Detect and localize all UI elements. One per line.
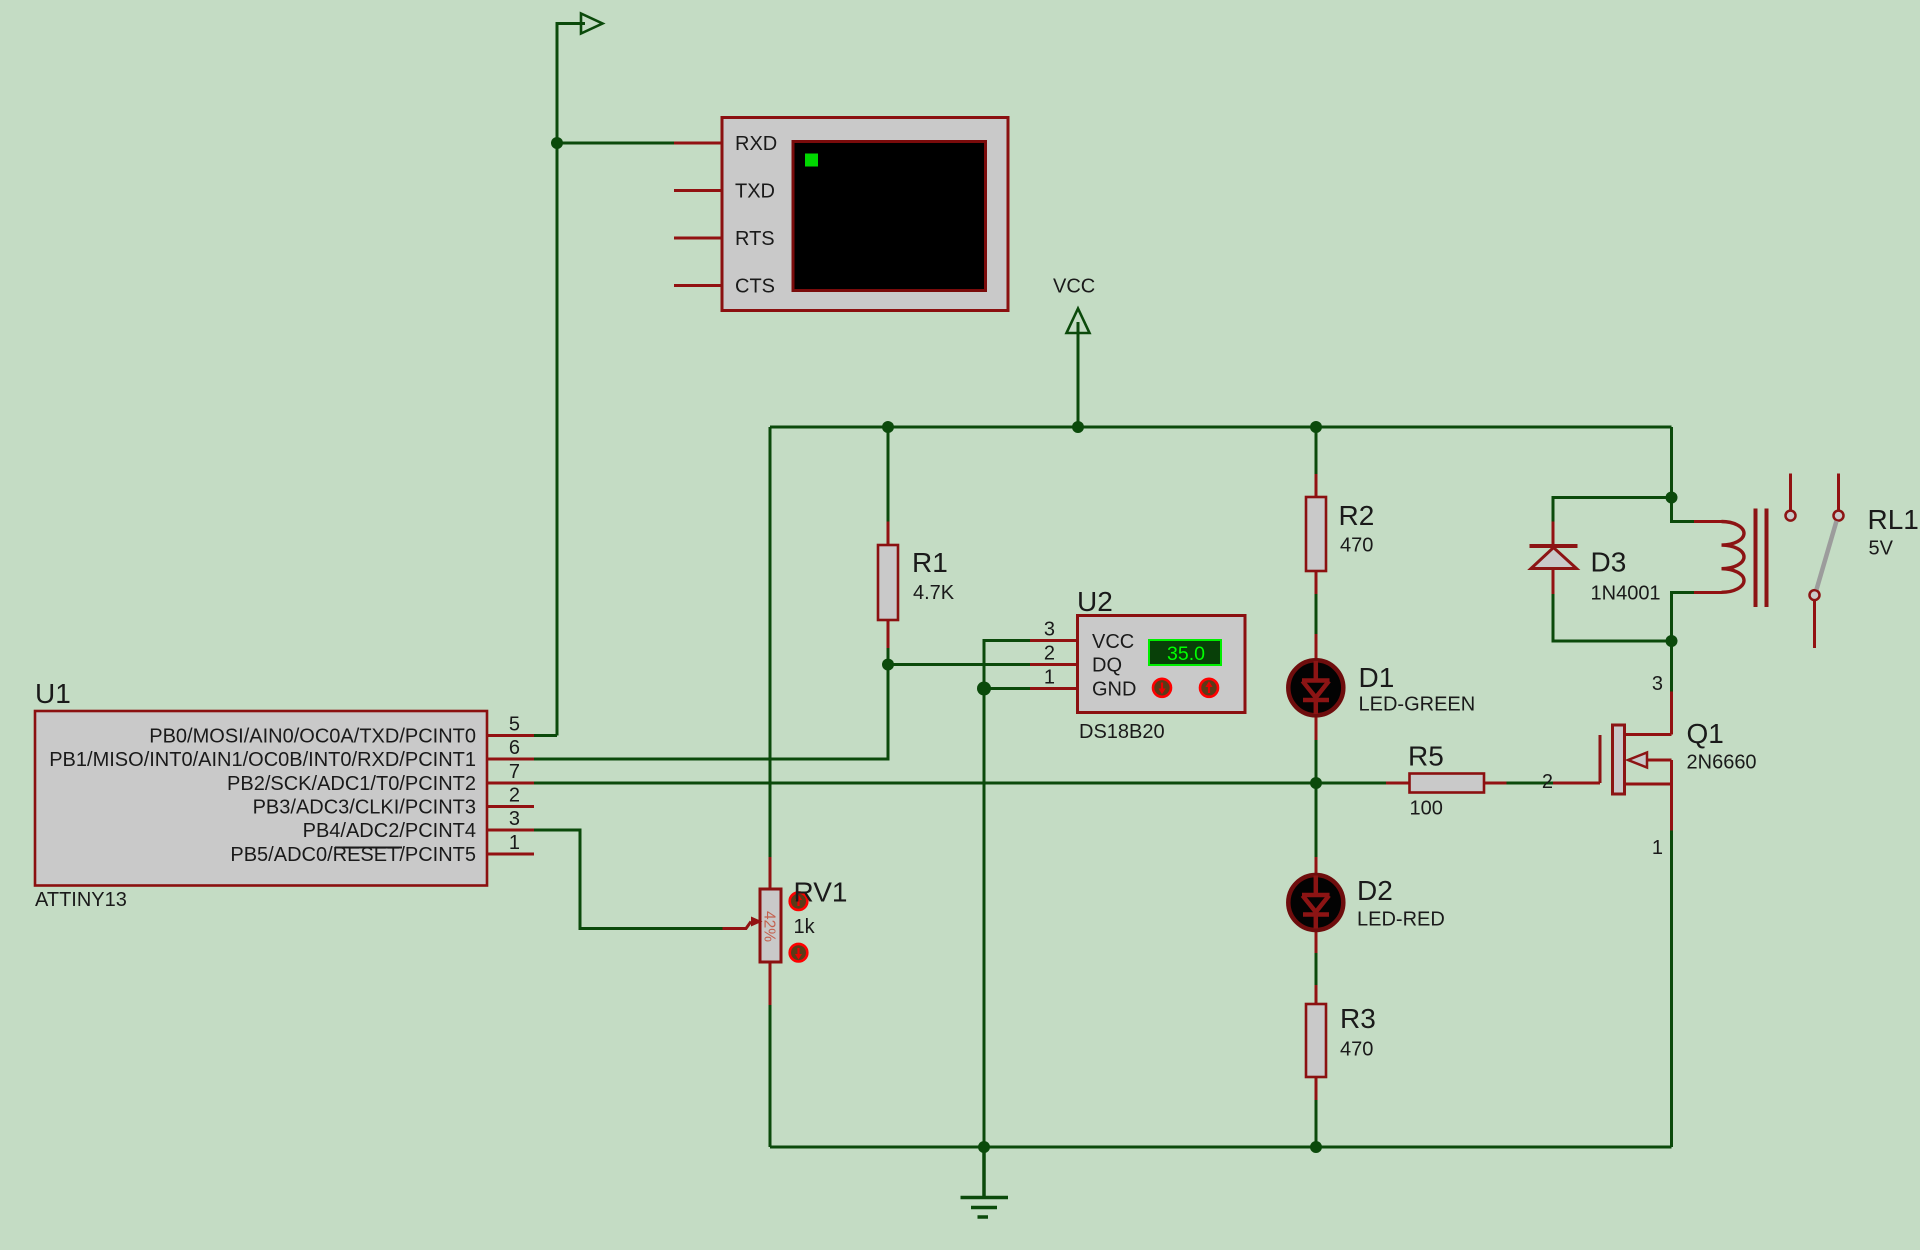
svg-text:R3: R3 bbox=[1340, 1003, 1376, 1034]
resistor R2 stubs bbox=[1315, 474, 1318, 497]
resistor R5 stubs bbox=[1386, 782, 1410, 785]
wire R1 bottom to DQ node bbox=[887, 648, 890, 665]
svg-text:3: 3 bbox=[509, 808, 520, 830]
svg-text:PB4/ADC2/PCINT4: PB4/ADC2/PCINT4 bbox=[303, 820, 476, 842]
svg-text:U1: U1 bbox=[35, 678, 71, 709]
svg-text:U2: U2 bbox=[1077, 586, 1113, 617]
U1 RESET overline bbox=[335, 847, 402, 849]
junction DQ node bbox=[882, 659, 894, 671]
wire R1 top to VCC rail bbox=[887, 427, 890, 522]
svg-text:Q1: Q1 bbox=[1687, 718, 1724, 749]
svg-text:3: 3 bbox=[1652, 673, 1663, 695]
svg-text:LED-RED: LED-RED bbox=[1357, 909, 1445, 931]
svg-text:TXD: TXD bbox=[735, 181, 775, 203]
wire relay node to coil top bbox=[1672, 498, 1695, 522]
wire D2 bottom to R3 bbox=[1315, 953, 1318, 985]
relay RL1 contact circles bbox=[1786, 511, 1796, 521]
svg-text:D2: D2 bbox=[1357, 875, 1393, 906]
U1 pin stubs 5 6 7 2 3 1 bbox=[487, 736, 534, 855]
junction RXD node bbox=[551, 137, 563, 149]
svg-text:2N6660: 2N6660 bbox=[1687, 752, 1757, 774]
junction R3-ground rail bbox=[1310, 1141, 1322, 1153]
svg-text:PB0/MOSI/AIN0/OC0A/TXD/PCINT0: PB0/MOSI/AIN0/OC0A/TXD/PCINT0 bbox=[149, 726, 476, 748]
relay RL1 coil bbox=[1722, 522, 1745, 593]
pin stub RXD bbox=[674, 142, 722, 145]
transistor Q1 source vertical bbox=[1670, 760, 1673, 831]
U2 button down bbox=[1153, 679, 1171, 697]
transistor Q1 gate bar bbox=[1599, 735, 1602, 783]
transistor Q1 channel bar body bbox=[1613, 725, 1625, 794]
resistor R3 stubs bbox=[1315, 985, 1318, 1004]
svg-text:1: 1 bbox=[1044, 667, 1055, 689]
wire U1 pin5 to vertical bbox=[534, 734, 557, 737]
wire U1 pin6 to DQ node bbox=[534, 665, 888, 760]
U1 pin numbers bbox=[509, 714, 520, 855]
wire U1 pin7 PB2 to LED node bbox=[534, 782, 1316, 785]
svg-text:PB1/MISO/INT0/AIN1/OC0B/INT0/R: PB1/MISO/INT0/AIN1/OC0B/INT0/RXD/PCINT1 bbox=[49, 749, 476, 771]
svg-text:2: 2 bbox=[509, 785, 520, 807]
pin stub RTS bbox=[674, 237, 722, 240]
wire RXD branch bbox=[557, 142, 674, 145]
relay RL1 contact stubs bbox=[1789, 474, 1792, 511]
U2 button up bbox=[1200, 679, 1218, 697]
transistor Q1 substrate stub bbox=[1647, 759, 1672, 762]
transistor Q1 substrate arrow bbox=[1628, 753, 1647, 768]
junction LED-R5 node bbox=[1310, 777, 1322, 789]
virtual terminal screen bbox=[793, 142, 986, 291]
svg-text:5: 5 bbox=[509, 714, 520, 736]
svg-text:R5: R5 bbox=[1408, 741, 1444, 772]
svg-text:D1: D1 bbox=[1359, 662, 1395, 693]
svg-text:R2: R2 bbox=[1339, 500, 1375, 531]
wire R2 top to rail bbox=[1315, 427, 1318, 474]
svg-text:4.7K: 4.7K bbox=[913, 582, 955, 604]
LED D1 body bbox=[1288, 660, 1343, 715]
diode D3 stubs bbox=[1552, 522, 1555, 547]
relay RL1 blade bbox=[1817, 521, 1837, 590]
svg-text:GND: GND bbox=[1092, 679, 1136, 701]
wire U2 VCC pin loop down bbox=[984, 641, 1030, 1148]
svg-text:VCC: VCC bbox=[1053, 276, 1095, 298]
LED D2 body bbox=[1288, 875, 1343, 930]
svg-text:ATTINY13: ATTINY13 bbox=[35, 889, 127, 911]
wire vertical net PB0 to terminal arrow bbox=[557, 24, 585, 736]
svg-text:PB3/ADC3/CLKI/PCINT3: PB3/ADC3/CLKI/PCINT3 bbox=[253, 797, 476, 819]
junction R1-VCC rail bbox=[882, 421, 894, 433]
svg-text:5V: 5V bbox=[1869, 538, 1894, 560]
pin stub TXD bbox=[674, 189, 722, 192]
wire RV1 bottom to ground rail bbox=[769, 1005, 772, 1147]
transistor Q1 source stub bbox=[1626, 783, 1672, 786]
junction VCC stem-rail bbox=[1072, 421, 1084, 433]
junction U2 GND node bbox=[977, 682, 991, 696]
U1 ATTINY13 body bbox=[35, 711, 487, 886]
svg-text:1k: 1k bbox=[794, 916, 816, 938]
virtual terminal cursor bbox=[805, 154, 818, 167]
wire LED node to R5 bbox=[1316, 782, 1386, 785]
svg-text:LED-GREEN: LED-GREEN bbox=[1359, 694, 1476, 716]
svg-text:RXD: RXD bbox=[735, 133, 777, 155]
U1 port labels bbox=[49, 726, 476, 867]
virtual terminal body bbox=[722, 118, 1008, 311]
wire VCC rail to RV1 top bbox=[769, 427, 772, 857]
svg-text:RV1: RV1 bbox=[794, 877, 848, 908]
diode D3 triangle bbox=[1531, 548, 1577, 569]
terminal arrow (off-page output symbol) bbox=[581, 14, 603, 34]
wire coil bottom to relay bottom node bbox=[1672, 593, 1695, 642]
transistor Q1 drain stub horizontal bbox=[1626, 733, 1672, 736]
svg-text:D3: D3 bbox=[1591, 547, 1627, 578]
potentiometer RV1 stubs bbox=[769, 857, 772, 889]
LED D2 stubs bbox=[1315, 857, 1318, 875]
pin stub CTS bbox=[674, 284, 722, 287]
svg-text:DQ: DQ bbox=[1092, 655, 1122, 677]
LED D1 diode symbol bbox=[1302, 661, 1330, 714]
ground symbol bbox=[961, 1147, 1009, 1217]
U2 pin stubs VCC DQ GND bbox=[1030, 641, 1078, 689]
transistor Q1 gate lead stub bbox=[1553, 782, 1600, 785]
resistor R1 stubs bbox=[887, 522, 890, 546]
svg-text:6: 6 bbox=[509, 737, 520, 759]
wire R3 bottom to ground rail bbox=[1315, 1100, 1318, 1147]
svg-text:R1: R1 bbox=[912, 547, 948, 578]
junction relay bottom node bbox=[1666, 635, 1678, 647]
resistor R5 body bbox=[1410, 774, 1485, 793]
svg-text:2: 2 bbox=[1044, 643, 1055, 665]
svg-text:1: 1 bbox=[1652, 837, 1663, 859]
wire Q1 source to ground rail bbox=[1670, 831, 1673, 1148]
svg-text:DS18B20: DS18B20 bbox=[1079, 721, 1165, 743]
wire relay node to D3 top bbox=[1553, 498, 1672, 522]
svg-text:2: 2 bbox=[1542, 771, 1553, 793]
svg-text:1: 1 bbox=[509, 832, 520, 854]
resistor R3 body bbox=[1306, 1004, 1326, 1077]
U2 pin numbers 3 2 1 bbox=[1044, 619, 1055, 689]
transistor Q1 drain stub vertical bbox=[1670, 692, 1673, 735]
svg-text:RL1: RL1 bbox=[1868, 504, 1919, 535]
diode D3 cathode bar bbox=[1530, 544, 1578, 548]
svg-text:RTS: RTS bbox=[735, 228, 775, 250]
power symbol VCC arrow bbox=[1067, 309, 1090, 334]
wire DQ node to U2 DQ pin bbox=[888, 663, 1030, 666]
wire D3 bottom to relay bottom node bbox=[1553, 594, 1672, 641]
wire U2 GND pin branch bbox=[984, 687, 1030, 690]
RV1 button down bbox=[790, 944, 808, 962]
resistor R2 body bbox=[1306, 497, 1326, 571]
svg-text:PB2/SCK/ADC1/T0/PCINT2: PB2/SCK/ADC1/T0/PCINT2 bbox=[227, 773, 476, 795]
svg-text:3: 3 bbox=[1044, 619, 1055, 641]
wire R2 bottom to D1 bbox=[1315, 594, 1318, 634]
wire ground rail bottom bbox=[770, 1146, 1672, 1149]
svg-text:VCC: VCC bbox=[1092, 631, 1134, 653]
svg-text:470: 470 bbox=[1340, 535, 1373, 557]
transistor Q1 pin numbers bbox=[1542, 673, 1663, 859]
wire relay bottom node to Q1 drain bbox=[1670, 641, 1673, 692]
junction relay top node bbox=[1666, 492, 1678, 504]
relay RL1 core bars bbox=[1754, 509, 1758, 608]
wire VCC rail top bbox=[770, 426, 1672, 429]
svg-text:42%: 42% bbox=[761, 911, 778, 942]
svg-text:CTS: CTS bbox=[735, 276, 775, 298]
wire D1 to node PB2 bbox=[1315, 740, 1318, 857]
power symbol VCC stem bbox=[1077, 322, 1080, 427]
wire R5 to Q1 gate bbox=[1507, 782, 1554, 785]
svg-text:100: 100 bbox=[1410, 798, 1443, 820]
junction ground rail at ground symbol bbox=[978, 1141, 990, 1153]
LED D1 stubs bbox=[1315, 634, 1318, 660]
svg-text:7: 7 bbox=[509, 761, 520, 783]
potentiometer RV1 wiper arrow bbox=[723, 922, 752, 929]
wire U1 pin3 PB4 to RV1 wiper bbox=[534, 830, 723, 929]
LED D2 diode symbol bbox=[1302, 876, 1330, 929]
U2 DS18B20 body bbox=[1078, 616, 1246, 713]
RV1 button up bbox=[790, 892, 808, 910]
relay RL1 coil leads bbox=[1694, 520, 1722, 523]
U2 temperature display bbox=[1149, 640, 1221, 665]
junction R2-VCC rail bbox=[1310, 421, 1322, 433]
svg-text:35.0: 35.0 bbox=[1167, 643, 1205, 665]
svg-text:1N4001: 1N4001 bbox=[1591, 583, 1661, 605]
wire VCC rail right corner down to relay node bbox=[1670, 427, 1673, 498]
svg-text:470: 470 bbox=[1340, 1039, 1373, 1061]
potentiometer RV1 body bbox=[760, 889, 781, 962]
resistor R1 body bbox=[878, 545, 898, 620]
